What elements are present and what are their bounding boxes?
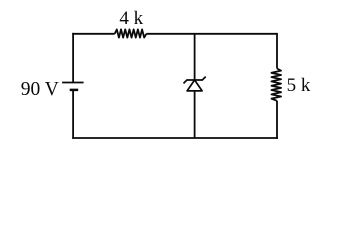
wire right upper: [276, 33, 278, 69]
wire top-right segment: [146, 33, 277, 35]
wire left lower (battery to bottom corner): [72, 90, 74, 139]
wire top-left segment: [72, 33, 115, 35]
resistor R2 5k zigzag: [271, 69, 281, 101]
wire right lower: [276, 101, 278, 139]
svg-text:4 k: 4 k: [119, 8, 143, 29]
zener diode D1 triangle: [187, 80, 202, 91]
wire left upper (corner to battery): [72, 33, 74, 83]
wire bottom: [72, 137, 278, 139]
svg-text:90 V: 90 V: [21, 79, 59, 100]
battery V1 short plate: [70, 89, 79, 92]
zener diode D1 cathode bar with bent ends: [184, 77, 206, 84]
battery V1 long plate: [62, 82, 84, 84]
wire middle lower (zener to bottom wire): [194, 91, 196, 138]
resistor R1 4k zigzag: [115, 29, 147, 37]
wire middle upper (top wire to zener): [194, 34, 196, 80]
svg-text:5 k: 5 k: [287, 75, 311, 96]
